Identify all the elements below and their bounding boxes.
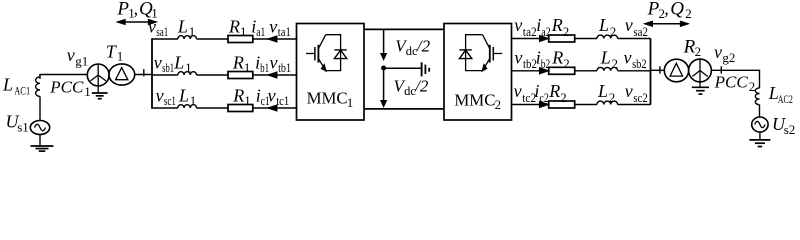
- wire phase c2: [512, 104, 549, 106]
- transformer delta winding: [664, 59, 688, 82]
- dc rail negative: [364, 108, 444, 110]
- svg-text:1: 1: [190, 93, 197, 108]
- ac source Us2: [752, 117, 768, 132]
- wire: [711, 70, 759, 88]
- label vsb2: [624, 47, 647, 71]
- label ia1: [251, 16, 265, 39]
- svg-text:2: 2: [749, 79, 756, 94]
- wire: [253, 107, 298, 109]
- svg-text:1: 1: [244, 93, 251, 108]
- svg-text:1: 1: [84, 84, 91, 99]
- svg-text:L: L: [178, 85, 189, 105]
- inductor L1 phase b1: [178, 72, 197, 75]
- igbt cell U1: [306, 35, 347, 71]
- label vtc1: [268, 85, 290, 108]
- wire: [39, 135, 41, 146]
- label R2: [551, 15, 570, 39]
- svg-text:s1: s1: [17, 120, 29, 135]
- svg-text:g1: g1: [75, 53, 88, 68]
- svg-text:ta2: ta2: [523, 25, 537, 39]
- label R2: [548, 81, 567, 105]
- inductor L2 phase b2: [597, 67, 618, 70]
- wire: [197, 38, 229, 40]
- svg-text:v: v: [268, 85, 276, 105]
- transformer T1 wye winding: [87, 64, 109, 93]
- label L1: [177, 16, 195, 39]
- wire: [135, 74, 152, 76]
- svg-text:v: v: [269, 16, 277, 36]
- svg-text:b1: b1: [260, 61, 269, 75]
- label MMC1: [307, 89, 354, 110]
- svg-text:2: 2: [495, 97, 502, 112]
- svg-text:v: v: [514, 15, 522, 35]
- label PCC1: [49, 78, 91, 100]
- dc rail positive: [364, 28, 444, 30]
- svg-text:,: ,: [664, 0, 669, 19]
- inductor L1 phase c1: [178, 105, 197, 108]
- transformer wye winding: [689, 59, 712, 87]
- wire phase a2: [512, 38, 549, 40]
- svg-text:AC1: AC1: [14, 84, 30, 98]
- ground: [749, 140, 770, 147]
- node tick: [720, 66, 722, 73]
- label P1,Q1: [116, 0, 157, 21]
- label ia2: [536, 15, 551, 39]
- wire: [759, 132, 761, 140]
- svg-text:sb2: sb2: [632, 57, 647, 71]
- wire phase a1: [152, 38, 178, 40]
- label vta1: [269, 16, 291, 39]
- current arrow ic1: [268, 105, 277, 111]
- transformer T1 delta winding: [109, 64, 135, 85]
- resistor R2 phase b2: [549, 67, 575, 74]
- label Us1: [6, 112, 29, 135]
- svg-text:tb1: tb1: [278, 61, 291, 75]
- svg-text:1: 1: [240, 24, 247, 39]
- svg-text:v: v: [624, 47, 632, 67]
- inductor LAC2: [755, 88, 759, 105]
- svg-text:2: 2: [695, 44, 702, 59]
- bus wire right: [650, 38, 652, 104]
- resistor R1 phase a1: [228, 36, 253, 43]
- svg-text:v: v: [148, 16, 156, 36]
- resistor R2 phase c2: [549, 101, 575, 108]
- wire: [618, 38, 651, 40]
- converter box MMC2: [444, 24, 512, 121]
- svg-text:2: 2: [563, 24, 570, 39]
- svg-text:b2: b2: [541, 57, 551, 71]
- svg-text:PCC: PCC: [714, 73, 749, 92]
- resistor R1 phase b1: [228, 72, 253, 79]
- svg-text:/2: /2: [414, 77, 429, 96]
- inductor L1 phase a1: [178, 36, 197, 39]
- label vtb2: [514, 47, 537, 71]
- wire: [575, 70, 597, 72]
- label Vdc/2 lower: [394, 77, 429, 99]
- svg-text:v: v: [625, 81, 633, 101]
- label ic2: [534, 81, 549, 105]
- wire to dc ground: [386, 67, 421, 69]
- label LAC2: [768, 83, 793, 106]
- power flow arrow P2Q2: [645, 21, 688, 26]
- svg-text:1: 1: [185, 60, 192, 75]
- svg-text:v: v: [156, 85, 164, 105]
- svg-text:a2: a2: [541, 25, 551, 39]
- resistor R1 phase c1: [228, 105, 253, 112]
- label vtc2: [514, 81, 537, 105]
- svg-text:2: 2: [612, 56, 619, 71]
- label ib2: [536, 47, 551, 71]
- power flow arrow P1Q1: [118, 20, 157, 25]
- ac source Us1: [30, 121, 49, 135]
- svg-text:1: 1: [244, 60, 251, 75]
- node dc midpoint: [381, 66, 386, 71]
- svg-text:1: 1: [347, 95, 354, 110]
- wire: [651, 69, 666, 71]
- label vsc2: [625, 81, 648, 105]
- label R1: [228, 16, 247, 39]
- svg-text:v: v: [154, 52, 162, 72]
- label ic1: [256, 85, 270, 108]
- current arrow ib1: [268, 72, 277, 78]
- label L1: [173, 52, 191, 75]
- svg-text:L: L: [597, 81, 608, 101]
- wire phase b2: [512, 70, 549, 72]
- svg-text:s2: s2: [784, 122, 796, 137]
- wire: [618, 70, 651, 72]
- svg-text:2: 2: [563, 56, 570, 71]
- svg-text:ta1: ta1: [278, 25, 291, 39]
- label vsb1: [154, 52, 174, 75]
- label R2: [551, 47, 570, 71]
- label vta2: [514, 15, 537, 39]
- wire: [575, 38, 597, 40]
- wire phase b1: [152, 74, 178, 76]
- svg-text:sb1: sb1: [162, 61, 174, 75]
- ground: [692, 87, 709, 94]
- svg-text:2: 2: [685, 6, 692, 21]
- svg-text:v: v: [270, 52, 278, 72]
- bus wire left: [151, 38, 153, 108]
- svg-text:c2: c2: [539, 91, 549, 105]
- label R1: [232, 85, 251, 108]
- svg-text:sa1: sa1: [156, 25, 168, 39]
- inductor L2 phase a2: [597, 35, 618, 38]
- svg-text:R: R: [232, 52, 244, 72]
- label L2: [600, 47, 618, 71]
- label R1: [232, 52, 251, 75]
- label P2,Q2: [647, 0, 692, 21]
- svg-text:MMC: MMC: [307, 89, 348, 108]
- wire: [40, 75, 88, 80]
- svg-text:2: 2: [609, 90, 616, 105]
- svg-text:L: L: [2, 75, 13, 95]
- wire: [253, 38, 298, 40]
- svg-text:sa2: sa2: [633, 25, 648, 39]
- label vsa1: [148, 16, 168, 39]
- svg-text:R: R: [232, 85, 244, 105]
- svg-text:PCC: PCC: [49, 78, 84, 97]
- label vg1: [67, 45, 89, 68]
- resistor R2 phase a2: [549, 35, 575, 42]
- svg-text:sc2: sc2: [633, 91, 648, 105]
- svg-text:sc1: sc1: [164, 94, 176, 108]
- label vg2: [714, 42, 735, 65]
- label L1: [178, 85, 196, 108]
- svg-text:R: R: [551, 15, 563, 35]
- label vsc1: [156, 85, 176, 108]
- wire: [575, 104, 597, 106]
- svg-text:L: L: [598, 15, 609, 35]
- node tick: [659, 66, 661, 73]
- svg-text:2: 2: [560, 90, 567, 105]
- label MMC2: [454, 91, 501, 112]
- svg-text:v: v: [67, 45, 75, 65]
- wire: [39, 96, 41, 120]
- label T1: [106, 41, 124, 63]
- wire: [197, 107, 229, 109]
- wire phase c1: [152, 107, 178, 109]
- svg-text:AC2: AC2: [778, 92, 793, 106]
- converter box MMC1: [297, 24, 365, 121]
- label L2: [597, 81, 615, 105]
- label Vdc/2 upper: [395, 36, 430, 58]
- wire: [618, 104, 651, 106]
- svg-text:v: v: [714, 42, 722, 62]
- igbt cell U2: [459, 35, 502, 71]
- inductor LAC1: [36, 77, 40, 97]
- wire: [253, 74, 298, 76]
- current arrow ia2: [540, 36, 549, 42]
- ground dc: [422, 62, 430, 76]
- svg-text:L: L: [600, 47, 611, 67]
- svg-text:v: v: [625, 15, 633, 35]
- svg-text:R: R: [228, 16, 240, 36]
- ground: [31, 146, 54, 151]
- label ib1: [255, 52, 269, 75]
- svg-text:tc1: tc1: [276, 94, 289, 108]
- svg-text:a1: a1: [256, 25, 265, 39]
- svg-text:Q: Q: [670, 0, 684, 20]
- svg-text:L: L: [177, 16, 188, 36]
- svg-text:L: L: [173, 52, 184, 72]
- svg-text:1: 1: [189, 24, 196, 39]
- wire: [759, 105, 761, 118]
- dc midpoint wire upper with arrow: [381, 29, 386, 59]
- label PCC2: [714, 73, 756, 95]
- current arrow ib2: [540, 68, 549, 74]
- current arrow ia1: [268, 36, 277, 42]
- label Us2: [772, 114, 795, 137]
- svg-text:1: 1: [117, 48, 124, 63]
- label LAC1: [2, 75, 30, 98]
- wire: [197, 74, 229, 76]
- inductor L2 phase c2: [597, 101, 618, 104]
- node tick: [143, 69, 145, 76]
- svg-text:,: ,: [134, 0, 139, 18]
- svg-text:v: v: [514, 81, 522, 101]
- label vtb1: [270, 52, 292, 75]
- svg-text:MMC: MMC: [454, 91, 495, 110]
- svg-text:/2: /2: [416, 36, 431, 55]
- svg-text:g2: g2: [722, 50, 735, 65]
- label L2: [598, 15, 616, 39]
- svg-text:R: R: [551, 47, 563, 67]
- label vsa2: [625, 15, 648, 39]
- ground: [92, 93, 108, 99]
- current arrow ic2: [540, 102, 549, 108]
- dc midpoint wire lower with arrow: [381, 70, 386, 106]
- label R2 transformer: [683, 37, 702, 60]
- svg-text:v: v: [514, 47, 522, 67]
- svg-text:R: R: [548, 81, 560, 101]
- svg-text:2: 2: [610, 24, 617, 39]
